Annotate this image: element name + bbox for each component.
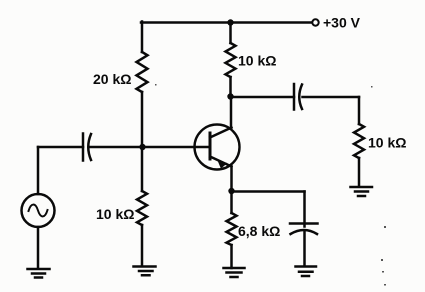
wire load vertical top — [358, 97, 361, 124]
resistor R1 20k zigzag — [137, 52, 148, 92]
wire rail down to R3 — [229, 23, 232, 44]
wire emitter node right to C3 — [232, 190, 305, 193]
svg-text:6,8 kΩ: 6,8 kΩ — [238, 223, 280, 239]
ground bypass — [296, 267, 317, 277]
ground emitter — [224, 268, 245, 277]
wire base node left to C1 — [90, 146, 142, 149]
wire left branch down from rail to R1 top — [141, 22, 144, 53]
svg-text:10 kΩ: 10 kΩ — [368, 135, 406, 151]
wire emitter down to node — [230, 167, 233, 192]
transistor Q1 emitter stroke — [210, 157, 232, 167]
scan specks (decorative) — [155, 84, 386, 286]
wire R1 bottom to base node — [141, 92, 144, 147]
resistor R3 10k collector zigzag — [226, 43, 236, 77]
transistor Q1 collector stroke — [210, 128, 232, 138]
svg-text:10 kΩ: 10 kΩ — [238, 53, 276, 69]
wire source to ground — [37, 227, 40, 268]
wire collector node right to C2 — [231, 96, 295, 99]
transistor Q1 emitter arrow — [218, 161, 228, 168]
wire C3 to ground — [303, 231, 306, 266]
ground source — [28, 269, 50, 278]
resistor R2 10k zigzag — [137, 191, 147, 225]
junction dot collector node — [227, 93, 233, 99]
capacitor C1 input left plate — [82, 134, 85, 161]
source V1 sine wave — [29, 205, 48, 217]
capacitor C2 output left plate — [293, 84, 296, 110]
wire top supply rail — [141, 21, 312, 24]
capacitor C1 input curved plate — [88, 134, 91, 160]
resistor R5 10k load zigzag — [354, 124, 364, 158]
wire divider down from base node to R2 — [141, 147, 144, 191]
wire R5 bottom to ground — [358, 158, 361, 186]
capacitor C2 output curved plate — [299, 85, 302, 110]
junction dot base node — [139, 144, 145, 150]
junction dot emitter node — [228, 188, 234, 194]
svg-text:10 kΩ: 10 kΩ — [96, 206, 134, 222]
wire C1 left to source corner — [38, 146, 83, 149]
wire source vertical — [37, 147, 40, 194]
wire collector node down to transistor — [230, 97, 233, 129]
transistor Q1 base bar — [209, 133, 212, 159]
wire R3 bottom to collector node — [229, 77, 232, 97]
resistor R4 6.8k zigzag — [227, 213, 237, 245]
ground divider — [134, 267, 156, 276]
wire C2 right to load corner — [303, 96, 360, 99]
wire down to C3 top — [303, 192, 306, 227]
wire R4 bottom to ground — [230, 245, 233, 268]
capacitor C3 bypass top plate — [290, 222, 318, 225]
junction dot top rail — [227, 19, 233, 25]
svg-text:+30 V: +30 V — [323, 15, 361, 31]
wire R2 bottom to ground — [141, 225, 144, 266]
wire emitter node to R4 — [230, 191, 233, 213]
terminal +30V open circle — [312, 19, 318, 25]
ground load — [351, 187, 373, 196]
svg-text:20 kΩ: 20 kΩ — [93, 71, 131, 87]
wire base node to transistor base bar — [142, 146, 209, 149]
transistor Q1 circle — [195, 125, 240, 170]
capacitor C3 bypass curved plate — [291, 230, 318, 234]
source V1 circle — [22, 194, 55, 227]
